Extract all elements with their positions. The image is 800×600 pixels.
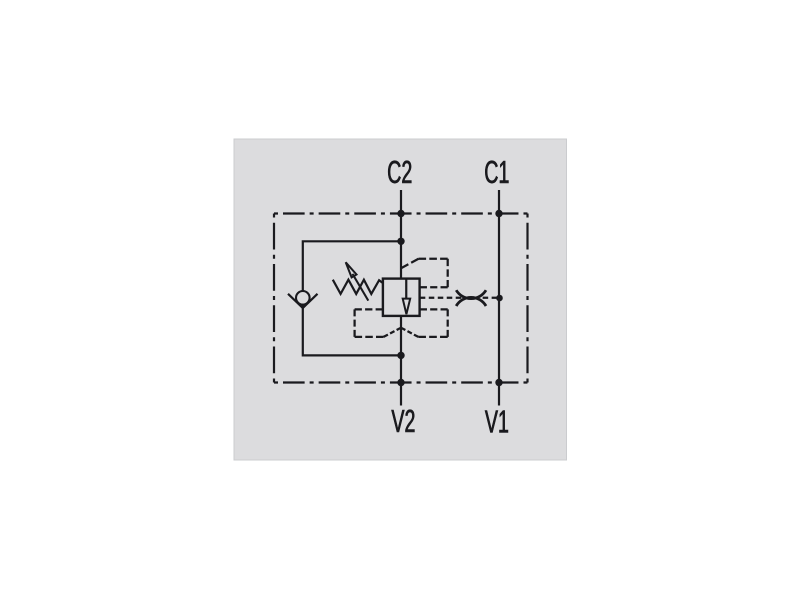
node: V2 at envelope bottom xyxy=(397,379,404,386)
pilot drain lower-right loop: bottom edge xyxy=(418,336,447,338)
relief valve body xyxy=(383,279,420,316)
wire C1 to V1 line xyxy=(498,190,500,406)
pilot line upper loop: right edge xyxy=(447,259,449,288)
relief valve poppet arrow xyxy=(403,299,411,315)
check valve CV1 seat xyxy=(288,294,318,308)
pilot drain lower-left loop: top edge from valve pin xyxy=(355,308,383,310)
pilot line upper loop (C2 sense): diagonal from C2 line xyxy=(401,259,419,268)
port label V2 xyxy=(391,410,414,432)
adjustment arrow head xyxy=(346,262,357,277)
pilot line to orifice xyxy=(420,297,497,299)
pilot drain lower-right loop: diagonal to C2 line xyxy=(401,328,418,337)
adjustment arrow shaft xyxy=(353,274,369,301)
wire C2 port line (top segment) xyxy=(400,190,402,279)
pilot drain lower-left loop: bottom edge xyxy=(355,336,384,338)
pilot drain lower-right loop: top edge from valve pin xyxy=(420,308,448,310)
node: V1 at envelope bottom xyxy=(495,379,502,386)
pilot line upper loop: bottom edge to valve pin xyxy=(420,286,448,288)
port label C2 xyxy=(388,161,411,184)
orifice (restrictor) lower arc xyxy=(456,297,486,306)
background panel xyxy=(234,139,567,460)
spring (adjustable) xyxy=(333,280,383,294)
node: C1 at envelope top xyxy=(495,210,502,217)
check valve CV1 ball xyxy=(296,291,310,305)
pilot drain lower-left loop: diagonal to C2 line xyxy=(384,328,402,337)
wire left branch (lower run back to C2 line) xyxy=(303,305,401,356)
pilot line upper loop: top edge xyxy=(419,258,448,260)
node: lower branch junction xyxy=(397,352,404,359)
node: orifice to V1 line xyxy=(496,295,503,302)
node: C2 at envelope top xyxy=(397,210,404,217)
relief valve inner divider xyxy=(405,279,407,299)
pilot drain lower-right loop: right edge xyxy=(447,309,449,337)
port label C1 xyxy=(485,161,508,184)
orifice (restrictor) upper arc xyxy=(456,290,486,298)
valve envelope boundary (dash-dot box) xyxy=(274,214,528,383)
wire C2 to V2 (lower segment) xyxy=(400,316,402,406)
port label V1 xyxy=(485,411,508,433)
pilot drain lower-left loop: left edge xyxy=(353,309,355,337)
wire left branch (upper run to check valve) xyxy=(303,241,401,291)
node: C2 branch junction xyxy=(397,238,404,245)
